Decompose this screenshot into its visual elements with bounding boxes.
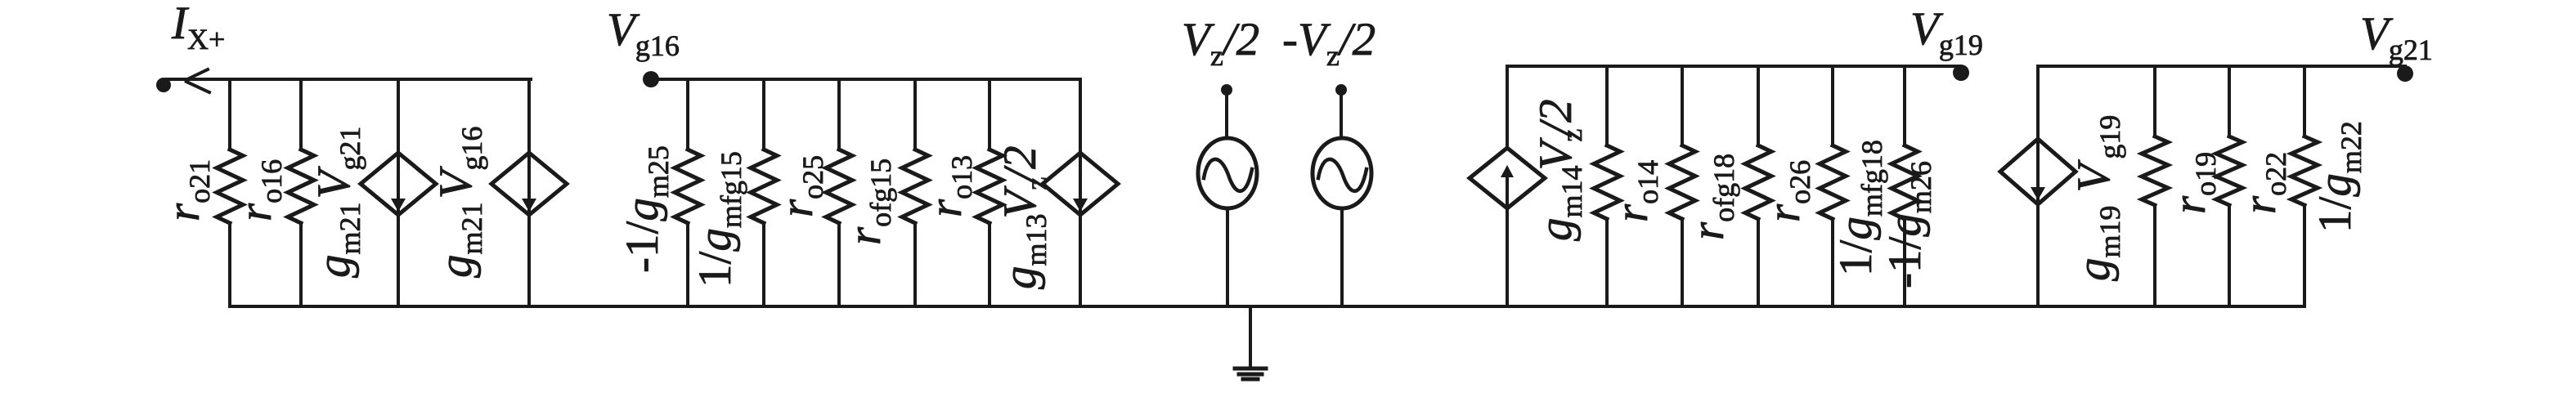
dependent source g_m14 V_z/2 (diamond, arrow up) <box>1470 66 1545 306</box>
resistor r_ofg18 <box>1669 66 1695 306</box>
dependent source g_m13 V_z/2 (diamond, arrow down) <box>1043 79 1118 306</box>
node V_g21 dot <box>2397 65 2413 82</box>
svg-text:ro21: ro21 <box>158 159 216 221</box>
resistor r_ofg15 <box>902 79 928 306</box>
resistor r_o19 <box>2142 66 2168 306</box>
resistor r_o25 <box>826 79 852 306</box>
resistor r_o14 <box>1594 66 1620 306</box>
node X+ terminal dot <box>156 78 171 92</box>
svg-text:IX+: IX+ <box>171 0 225 56</box>
resistor r_o21 <box>217 79 243 306</box>
svg-text:Vg16: Vg16 <box>607 4 680 62</box>
resistor 1/g_m22 <box>2291 66 2318 306</box>
node V_g16 dot <box>643 71 659 87</box>
voltage source -V_z/2 <box>1313 84 1371 306</box>
svg-text:1/gm22: 1/gm22 <box>2309 121 2367 233</box>
svg-text:gm14Vz/2: gm14Vz/2 <box>1530 99 1588 241</box>
svg-text:-1/gm25: -1/gm25 <box>617 145 675 273</box>
resistor -1/g_m26 <box>1892 66 1918 306</box>
wire top rail section 2 <box>651 78 1080 81</box>
svg-text:1/gmfg15: 1/gmfg15 <box>689 151 747 288</box>
resistor -1/g_m25 <box>675 79 701 306</box>
dependent source g_m21 V_g21 (diamond, arrow down) <box>361 79 436 306</box>
svg-text:Vz/2: Vz/2 <box>1182 14 1259 72</box>
resistor r_o16 <box>288 79 314 306</box>
wire top rail section 1 <box>167 78 531 81</box>
dependent source g_m19 V_g19 (diamond, arrow down) <box>2000 66 2076 306</box>
wire top rail section 5 <box>2038 65 2405 68</box>
svg-text:ro16: ro16 <box>230 159 288 221</box>
svg-text:gm19Vg19: gm19Vg19 <box>2068 115 2126 281</box>
svg-text:ro22: ro22 <box>2234 152 2292 214</box>
svg-text:ro13: ro13 <box>920 155 978 217</box>
svg-text:ro19: ro19 <box>2164 152 2222 214</box>
resistor r_o22 <box>2216 66 2242 306</box>
current arrow I_X+ <box>186 69 209 92</box>
node V_g19 dot <box>1953 65 1969 81</box>
ground <box>1235 306 1266 379</box>
resistor r_o13 <box>976 79 1003 306</box>
svg-text:gm13Vz/2: gm13Vz/2 <box>994 145 1052 289</box>
resistor 1/g_mfg18 <box>1820 66 1846 306</box>
svg-text:gm21Vg21: gm21Vg21 <box>308 127 366 278</box>
wire top rail section 4 <box>1507 65 1960 68</box>
svg-text:-Vz/2: -Vz/2 <box>1282 14 1376 72</box>
voltage source V_z/2 <box>1198 84 1257 306</box>
dependent source g_m21 V_g16 (diamond, arrow down) <box>491 79 567 306</box>
svg-text:ro25: ro25 <box>771 155 829 217</box>
svg-text:gm21Vg16: gm21Vg16 <box>430 127 488 278</box>
resistor 1/g_mfg15 <box>751 79 777 306</box>
svg-text:ro26: ro26 <box>1758 160 1816 222</box>
resistor r_o26 <box>1745 66 1771 306</box>
svg-text:ro14: ro14 <box>1606 160 1664 222</box>
svg-text:Vg21: Vg21 <box>2360 8 2433 66</box>
wire bottom rail <box>230 305 2304 308</box>
svg-text:Vg19: Vg19 <box>1910 3 1983 61</box>
